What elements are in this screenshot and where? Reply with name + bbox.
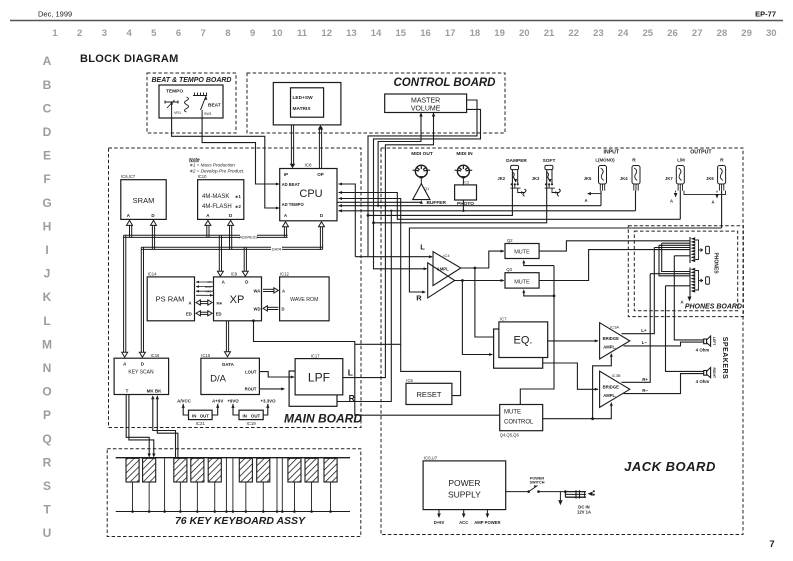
svg-text:A: A [43, 54, 52, 68]
svg-text:R: R [416, 294, 422, 303]
svg-text:L/M: L/M [677, 158, 685, 163]
svg-text:3: 3 [102, 28, 107, 39]
svg-text:11: 11 [297, 28, 308, 39]
wire mute Q3 out [539, 250, 690, 281]
svg-text:EP-77: EP-77 [755, 10, 776, 19]
svg-text:∗2: ∗2 [235, 204, 242, 209]
svg-text:L(MONO): L(MONO) [595, 158, 615, 163]
svg-text:BUFFER: BUFFER [427, 200, 447, 206]
svg-text:12: 12 [321, 28, 332, 39]
wire mute control to bridges [543, 404, 612, 419]
wire beat to CPU AD BEAT [202, 118, 278, 185]
LED+SW MATRIX inner box [291, 88, 324, 117]
SRAM IC6 IC7 [121, 180, 166, 220]
svg-text:AD BEAT: AD BEAT [282, 182, 301, 187]
CPU IC8 [280, 169, 337, 221]
regulator IC19 [239, 410, 263, 419]
svg-text:VR1: VR1 [174, 111, 181, 115]
KEY SCAN IC16 [114, 358, 169, 394]
svg-text:21: 21 [544, 28, 555, 39]
svg-text:2: 2 [77, 28, 82, 39]
svg-text:7: 7 [769, 539, 774, 550]
svg-text:ROUT: ROUT [245, 387, 257, 392]
svg-text:SPEAKERS: SPEAKERS [721, 337, 728, 380]
BRIDGE AMPL IC3A [600, 323, 630, 359]
bus CPU A [283, 225, 285, 237]
svg-text:29: 29 [741, 28, 752, 39]
svg-text:IC12: IC12 [280, 271, 290, 276]
wire L- to speaker [624, 342, 704, 346]
LED+SW MATRIX outer box [273, 83, 341, 125]
JACK BOARD dashed outline [381, 148, 743, 535]
MASTER VOLUME box [385, 94, 467, 113]
svg-text:LOUT: LOUT [245, 369, 257, 374]
svg-text:IC21: IC21 [196, 421, 206, 426]
wire L+ to phones [622, 248, 655, 334]
svg-text:AMP POWER: AMP POWER [474, 520, 500, 525]
svg-text:IC10: IC10 [198, 174, 208, 179]
svg-text:IC4: IC4 [443, 253, 450, 258]
wire ampl L to EQ [475, 268, 498, 337]
wire volume wiper a to CPU [378, 113, 421, 206]
svg-text:G: G [42, 196, 51, 210]
key switch 10 [324, 458, 337, 482]
svg-text:ADDRESS: ADDRESS [238, 235, 258, 239]
svg-text:JK7: JK7 [665, 176, 673, 181]
bus to KEY SCAN D [140, 247, 142, 354]
phones jack 1 feed wires [654, 247, 690, 249]
CONTROL BOARD dashed outline [247, 73, 505, 133]
svg-text:R+: R+ [642, 377, 648, 382]
wire R+ to phones [622, 274, 651, 383]
svg-text:A/VCC: A/VCC [177, 398, 191, 403]
svg-text:LEFT: LEFT [712, 337, 716, 346]
wire R signal riser [337, 211, 391, 402]
key switch 3 [174, 458, 187, 482]
svg-text:SUPPLY: SUPPLY [448, 490, 481, 500]
svg-text:CONTROL: CONTROL [504, 420, 534, 426]
MAIN BOARD dashed outline [109, 148, 362, 428]
svg-text:AD TEMPO: AD TEMPO [282, 202, 305, 207]
wire mute control pins [524, 262, 554, 266]
svg-text:DATA: DATA [222, 362, 235, 367]
svg-text:CPU: CPU [299, 188, 322, 200]
grid row letters [42, 54, 52, 540]
svg-text:ED: ED [186, 311, 192, 316]
wire output jack to ampl T2 [409, 228, 721, 292]
svg-text:+3.3VO: +3.3VO [260, 398, 276, 403]
svg-text:IN: IN [243, 413, 247, 418]
svg-text:L: L [43, 314, 50, 328]
svg-text:IC3B: IC3B [612, 373, 621, 378]
dc jack ground [559, 492, 561, 500]
D/A IC15 [201, 358, 260, 394]
svg-text:T: T [43, 503, 51, 517]
svg-text:IC16: IC16 [151, 353, 161, 358]
svg-text:IC6,IC7: IC6,IC7 [121, 174, 136, 179]
svg-text:D: D [282, 306, 285, 311]
svg-text:SW1: SW1 [204, 112, 212, 116]
psram-xp A bus [199, 300, 210, 302]
svg-text:WA: WA [254, 288, 261, 293]
svg-text:22: 22 [568, 28, 579, 39]
svg-text:4 Ohm: 4 Ohm [696, 379, 710, 384]
svg-text:MUTE: MUTE [504, 410, 521, 416]
svg-text:Q: Q [42, 432, 51, 446]
svg-text:6: 6 [176, 28, 181, 39]
svg-text:IP: IP [284, 172, 288, 177]
PHONES BOARD inner dashed outline [634, 231, 737, 311]
BRIDGE AMPL IC3B [600, 371, 630, 407]
svg-text:AMPL: AMPL [437, 267, 449, 272]
svg-text:IC5: IC5 [406, 378, 413, 383]
svg-text:H: H [43, 219, 52, 233]
svg-text:JK3: JK3 [532, 176, 540, 181]
svg-text:PS RAM: PS RAM [156, 295, 185, 304]
svg-text:IC3A: IC3A [610, 325, 619, 330]
beat rotary switch SW1 [185, 97, 189, 112]
svg-text:28: 28 [717, 28, 728, 39]
svg-text:IN: IN [192, 413, 196, 418]
svg-text:SOFT: SOFT [543, 158, 556, 164]
svg-text:14: 14 [371, 28, 382, 39]
bus CPU OP to matrix [318, 127, 320, 169]
svg-text:L−: L− [642, 340, 648, 345]
4M-MASK 4M-FLASH IC10 [198, 180, 244, 220]
svg-text:Q2: Q2 [507, 238, 513, 243]
svg-text:10: 10 [272, 28, 283, 39]
svg-text:13: 13 [346, 28, 357, 39]
svg-text:MAIN BOARD: MAIN BOARD [284, 412, 362, 426]
input L ground flag A [588, 193, 601, 195]
xp-waverom WD bus [267, 306, 279, 308]
key switch 1 [126, 458, 139, 482]
bus MASK A [206, 224, 208, 237]
phones jack 1 [689, 237, 691, 263]
address bus [124, 234, 288, 236]
keyboard contact wire [225, 458, 227, 512]
svg-text:MASTER: MASTER [411, 98, 440, 105]
power supply outputs [438, 510, 440, 514]
wire buffer input [420, 201, 421, 204]
wire phones to right speaker [666, 286, 704, 372]
svg-text:BRIDGE: BRIDGE [603, 336, 619, 341]
svg-text:26: 26 [667, 28, 678, 39]
svg-text:MUTE: MUTE [514, 279, 530, 285]
svg-text:23: 23 [593, 28, 604, 39]
svg-text:MK BK: MK BK [147, 389, 162, 394]
tempo potentiometer VR1 [165, 101, 178, 103]
svg-text:T: T [126, 389, 129, 394]
svg-text:IC19: IC19 [246, 421, 256, 426]
svg-text:19: 19 [494, 28, 505, 39]
svg-text:Q1: Q1 [424, 186, 430, 191]
svg-text:OP: OP [317, 172, 324, 177]
bus SRAM A [129, 224, 131, 237]
wire R- to speaker [624, 374, 704, 394]
svg-text:JACK BOARD: JACK BOARD [624, 459, 716, 474]
svg-text:18: 18 [470, 28, 481, 39]
svg-text:KEY SCAN: KEY SCAN [128, 370, 154, 376]
svg-text:JK2: JK2 [497, 176, 505, 181]
svg-text:DATA: DATA [272, 247, 282, 251]
wire CPU in 4 to input L [339, 205, 602, 207]
POWER SUPPLY IC1 box [423, 461, 506, 510]
svg-text:A: A [188, 301, 191, 306]
svg-text:RESET: RESET [416, 390, 441, 399]
svg-text:Q4,Q5,Q6: Q4,Q5,Q6 [500, 433, 520, 438]
svg-text:LPF: LPF [308, 371, 330, 385]
LPF IC17 [295, 359, 343, 395]
svg-text:A: A [584, 198, 587, 203]
keyboard contact wire [232, 458, 234, 512]
svg-text:24: 24 [618, 28, 629, 39]
svg-text:OUT: OUT [251, 413, 261, 418]
svg-text:INPUT: INPUT [604, 150, 620, 156]
svg-text:Q3: Q3 [506, 267, 512, 272]
PS RAM IC14 [147, 277, 194, 321]
svg-text:D+9V: D+9V [434, 520, 445, 525]
key switch 9 [305, 458, 318, 482]
svg-text:B: B [43, 78, 52, 92]
svg-text:R: R [632, 158, 636, 164]
phones jack 2 [689, 268, 691, 294]
svg-text:TEMPO: TEMPO [166, 89, 183, 95]
wire CPU in 5 to input R [339, 210, 636, 212]
svg-text:27: 27 [692, 28, 703, 39]
psram-xp control lines [196, 281, 214, 283]
svg-text:BRIDGE: BRIDGE [603, 384, 619, 389]
output R ground flag A [716, 191, 718, 193]
wire tempo to CPU AD TEMPO [172, 118, 279, 209]
svg-text:A: A [711, 200, 714, 205]
LPF shadow box [289, 371, 337, 406]
svg-text:ACC: ACC [459, 520, 468, 525]
svg-text:C: C [43, 101, 52, 115]
svg-text:MRD: MRD [206, 289, 212, 293]
wire volume out right b to ampl R [374, 109, 481, 268]
key switch 8 [288, 458, 301, 482]
svg-text:JK6: JK6 [706, 176, 714, 181]
wire CPU in 1 [339, 184, 356, 257]
output L ground flag A [675, 191, 677, 193]
EQ IC7 box [499, 322, 548, 358]
svg-text:4 Ohm: 4 Ohm [696, 348, 710, 353]
svg-text:76 KEY KEYBOARD ASSY: 76 KEY KEYBOARD ASSY [175, 515, 306, 527]
svg-text:17: 17 [445, 28, 456, 39]
svg-text:+9VO: +9VO [227, 398, 239, 403]
svg-text:IC2: IC2 [463, 180, 470, 185]
svg-text:D: D [43, 125, 52, 139]
svg-text:5: 5 [151, 28, 157, 39]
svg-text:EQ.: EQ. [514, 335, 533, 347]
svg-text:VOLUME: VOLUME [411, 106, 441, 113]
svg-text:F: F [43, 172, 50, 186]
svg-text:Dec, 1999: Dec, 1999 [38, 10, 72, 19]
wire D/A LOUT to LPF [259, 372, 294, 377]
wire soft to board [374, 170, 547, 223]
svg-text:4: 4 [126, 28, 132, 39]
bus to XP A [218, 235, 220, 273]
wire volume wiper b to CPU [385, 113, 433, 211]
svg-text:AMPL.: AMPL. [603, 345, 616, 350]
svg-text:IC15: IC15 [201, 353, 211, 358]
svg-text:MATRIX: MATRIX [293, 106, 312, 112]
wire ampl L out to MUTE Q2 [461, 251, 504, 268]
svg-text:20: 20 [519, 28, 530, 39]
wire phones to left speaker [674, 256, 703, 340]
MUTE CONTROL box [500, 405, 543, 431]
svg-text:BLOCK DIAGRAM: BLOCK DIAGRAM [80, 53, 179, 65]
power switch [506, 491, 528, 493]
BEAT & TEMPO BOARD dashed outline [147, 73, 236, 133]
key switch 4 [191, 458, 204, 482]
svg-text:SWITCH: SWITCH [530, 481, 545, 485]
svg-text:9: 9 [250, 28, 255, 39]
wire CPU reset in [339, 199, 461, 396]
svg-text:PHONES: PHONES [713, 252, 719, 274]
svg-text:A: A [282, 288, 285, 293]
EQ shadow box [494, 329, 543, 368]
bus MASK D [229, 224, 231, 249]
svg-text:M: M [42, 337, 52, 351]
svg-text:P: P [43, 408, 51, 422]
svg-text:S: S [43, 479, 51, 493]
phones jack 2 feed wires [650, 273, 690, 275]
svg-text:7: 7 [201, 28, 206, 39]
svg-text:BEAT & TEMPO BOARD: BEAT & TEMPO BOARD [152, 77, 232, 84]
svg-text:CONTROL BOARD: CONTROL BOARD [393, 77, 495, 89]
svg-text:A+9V: A+9V [212, 398, 223, 403]
keyboard contact wire [281, 458, 283, 512]
bus XP to D/A DATA [225, 321, 227, 354]
data bus [141, 246, 322, 248]
wire volume out right a to ampl L [368, 100, 477, 257]
svg-text:PHONES BOARD: PHONES BOARD [685, 304, 742, 311]
keyboard contact wire [164, 458, 166, 512]
key switch 5 [208, 458, 221, 482]
RESET IC5 box [406, 383, 452, 404]
wire XP mute to MUTE CONTROL [254, 321, 500, 415]
svg-text:K: K [43, 290, 52, 304]
wire L riser [343, 211, 385, 378]
key switch 7 [257, 458, 270, 482]
svg-text:E: E [43, 149, 51, 163]
WAVE ROM IC12 [280, 277, 330, 321]
MUTE Q3 box [505, 273, 539, 288]
key switch 6 [239, 458, 252, 482]
svg-text:LED+SW: LED+SW [293, 95, 314, 101]
svg-text:N: N [43, 361, 52, 375]
bus matrix to CPU IP [290, 125, 292, 166]
wire CPU in 2 [339, 193, 681, 220]
key switch 2 [143, 458, 156, 482]
wire ampl R to EQ shadow [462, 281, 492, 355]
svg-text:L: L [348, 367, 353, 377]
AMPL IC4 triangle L [433, 252, 461, 286]
wire keyboard to KEY SCAN MK BK [153, 399, 176, 458]
svg-text:D/A: D/A [210, 374, 227, 385]
svg-text:∗2 = Develop-Pre Product.: ∗2 = Develop-Pre Product. [189, 168, 245, 173]
svg-text:8: 8 [225, 28, 230, 39]
svg-text:WAVE ROM: WAVE ROM [290, 297, 318, 303]
svg-text:4M-FLASH: 4M-FLASH [202, 204, 232, 210]
keyboard common rails [116, 457, 350, 459]
svg-text:R−: R− [642, 388, 648, 393]
svg-text:25: 25 [643, 28, 654, 39]
76 KEY KEYBOARD ASSY dashed outline [107, 449, 361, 537]
svg-text:∗1 = Mass Production: ∗1 = Mass Production [189, 163, 235, 168]
psram-xp ED bus [199, 311, 210, 313]
svg-text:WD: WD [254, 306, 261, 311]
svg-text:IC9: IC9 [231, 271, 238, 276]
wire CPU txd to buffer [337, 201, 420, 203]
wire photo output to CPU [462, 200, 464, 211]
output jack link wire [684, 191, 726, 195]
svg-text:JK4: JK4 [620, 176, 628, 181]
keyboard contact wire [276, 458, 278, 512]
xp-waverom WA bus [263, 288, 275, 290]
svg-text:POWER: POWER [448, 478, 480, 488]
wire mute Q2 out [539, 241, 690, 251]
svg-text:IC17: IC17 [311, 353, 321, 358]
right speaker [704, 371, 707, 376]
svg-text:MWR: MWR [205, 285, 212, 289]
wire EQ R out to IC3B [543, 363, 598, 389]
svg-text:16: 16 [420, 28, 431, 39]
svg-text:A: A [670, 199, 673, 204]
svg-text:IC8: IC8 [305, 162, 313, 167]
svg-text:IC7: IC7 [500, 316, 507, 321]
phones jack 1 to left speaker link [674, 255, 690, 257]
svg-text:30: 30 [766, 28, 777, 39]
svg-text:4M-MASK: 4M-MASK [202, 194, 229, 200]
bus to KEY SCAN A [123, 235, 125, 354]
svg-text:DAMPER: DAMPER [506, 158, 527, 164]
svg-text:OUT: OUT [200, 413, 210, 418]
wire D/A ROUT to LPF shadow [259, 388, 284, 390]
svg-text:IC14: IC14 [148, 271, 158, 276]
svg-text:1: 1 [52, 28, 58, 39]
svg-text:O: O [42, 385, 51, 399]
svg-text:RIGHT: RIGHT [712, 368, 716, 379]
buffer Q1 [420, 177, 422, 184]
svg-text:A: A [680, 300, 683, 305]
svg-text:MIDI IN: MIDI IN [456, 151, 473, 157]
svg-text:SRAM: SRAM [133, 196, 155, 205]
phones jack 2 to right speaker link [666, 285, 691, 287]
wire EQ L out to IC3A [548, 340, 598, 342]
wire reset branch [355, 343, 401, 345]
bus CPU D [319, 225, 321, 249]
svg-text:U: U [43, 526, 52, 540]
beat/tempo inner box [159, 85, 223, 118]
svg-text:∗1: ∗1 [235, 194, 242, 199]
svg-text:15: 15 [396, 28, 407, 39]
wire KEY SCAN T to keyboard [126, 395, 149, 455]
photocoupler IC2 [462, 177, 464, 185]
svg-text:12V 1A: 12V 1A [577, 509, 591, 514]
page header rule [10, 20, 783, 22]
PHONES BOARD outer dashed outline [628, 226, 743, 317]
BEAT & TEMPO BOARD title [154, 75, 230, 84]
svg-text:R: R [720, 158, 724, 164]
dc jack DC IN [564, 490, 567, 493]
svg-text:MIDI OUT: MIDI OUT [411, 151, 433, 157]
grid column numbers [52, 28, 776, 39]
svg-text:JK5: JK5 [584, 176, 592, 181]
wire ampl R out to MUTE Q3 [455, 280, 504, 282]
